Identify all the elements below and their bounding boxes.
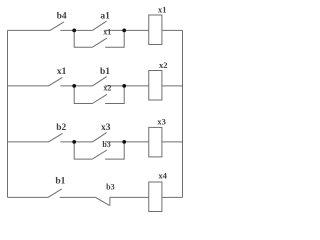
svg-text:a1: a1 [100, 12, 110, 22]
svg-text:b3: b3 [102, 140, 110, 149]
svg-text:x2: x2 [159, 60, 168, 70]
svg-text:x3: x3 [101, 123, 111, 133]
svg-text:x4: x4 [158, 171, 167, 181]
svg-text:b1: b1 [100, 67, 110, 77]
svg-text:x1: x1 [57, 67, 67, 77]
svg-text:b2: b2 [56, 123, 66, 133]
svg-text:b1: b1 [55, 176, 65, 186]
svg-text:x3: x3 [157, 116, 166, 126]
svg-text:x1: x1 [158, 4, 167, 14]
svg-text:x1: x1 [103, 28, 111, 37]
svg-text:x2: x2 [103, 84, 111, 93]
svg-text:b4: b4 [57, 12, 67, 22]
svg-text:b3: b3 [106, 182, 114, 191]
